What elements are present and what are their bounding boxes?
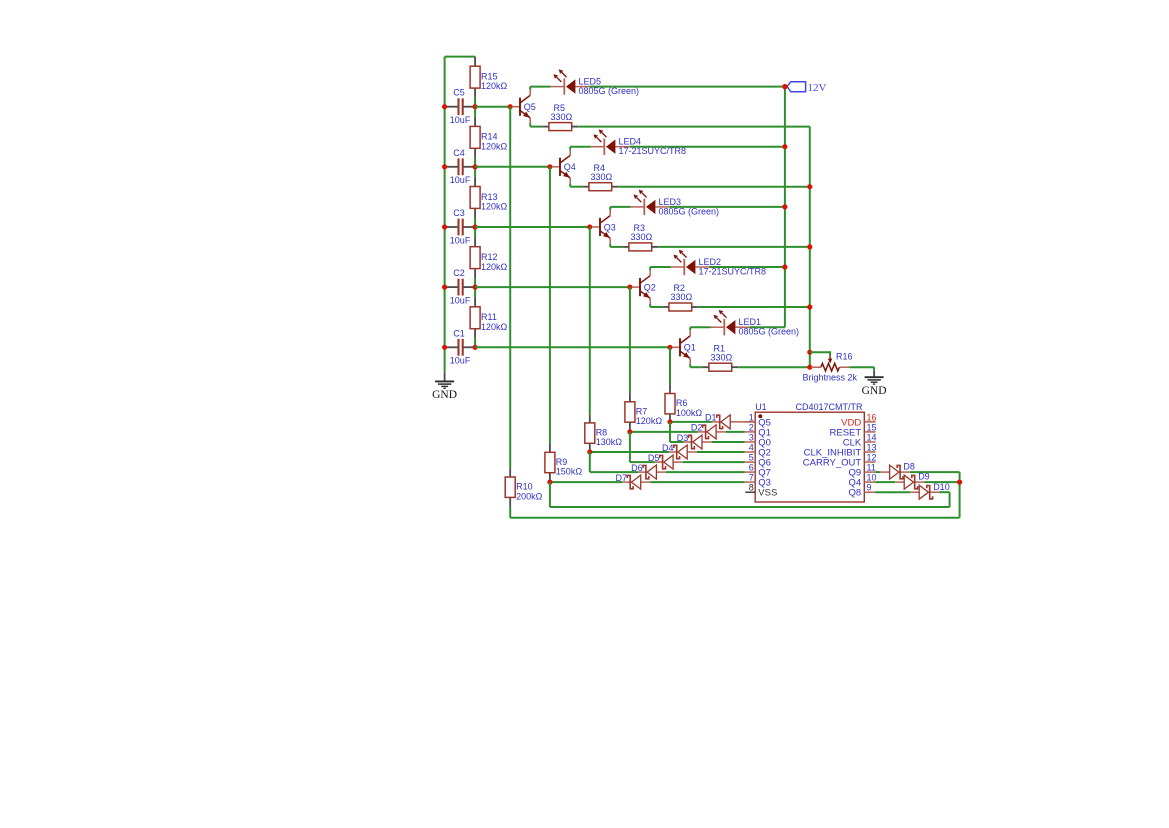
svg-text:120kΩ: 120kΩ xyxy=(481,262,508,272)
diode D6 xyxy=(631,463,666,479)
wire xyxy=(669,206,785,208)
ground xyxy=(432,381,457,401)
wire xyxy=(876,491,911,493)
wire xyxy=(650,266,670,268)
junction xyxy=(782,84,787,89)
svg-text:R12: R12 xyxy=(481,252,498,262)
svg-text:LED5: LED5 xyxy=(579,77,602,87)
resistor R12 xyxy=(470,247,507,272)
resistor R2 xyxy=(669,283,693,311)
wire xyxy=(689,364,691,367)
wire R16 to GND xyxy=(849,366,874,368)
diode D10 xyxy=(910,482,949,499)
svg-text:D1: D1 xyxy=(705,413,717,423)
svg-text:Q3: Q3 xyxy=(604,222,616,232)
wire xyxy=(530,86,550,88)
svg-text:5: 5 xyxy=(749,453,754,463)
resistor R1 xyxy=(709,343,733,371)
junction xyxy=(807,244,812,249)
wire D8/D9 rail xyxy=(959,472,961,518)
svg-text:120kΩ: 120kΩ xyxy=(481,141,508,151)
junction xyxy=(442,285,447,290)
svg-text:12: 12 xyxy=(867,453,877,463)
wire xyxy=(609,207,611,210)
wire xyxy=(549,482,551,507)
resistor R10 xyxy=(505,477,542,501)
svg-text:120kΩ: 120kΩ xyxy=(636,416,663,426)
junction xyxy=(807,184,812,189)
junction xyxy=(587,449,592,454)
wire bottom rail lower xyxy=(510,517,959,519)
transistor Q2 xyxy=(632,270,656,304)
junction xyxy=(473,104,478,109)
capacitor C5 xyxy=(447,88,474,125)
svg-text:Q1: Q1 xyxy=(684,343,696,353)
svg-text:330Ω: 330Ω xyxy=(631,232,653,242)
LED LED1 xyxy=(711,310,800,337)
transistor Q1 xyxy=(672,330,696,364)
svg-text:Q8: Q8 xyxy=(849,488,862,499)
wire xyxy=(629,432,631,462)
svg-text:R13: R13 xyxy=(481,192,498,202)
wire xyxy=(910,471,960,473)
wire xyxy=(474,338,476,347)
wire xyxy=(649,267,651,270)
resistor R4 xyxy=(589,163,613,191)
resistor R3 xyxy=(629,223,653,251)
wire xyxy=(690,326,710,328)
wire xyxy=(570,146,590,148)
wire emitter rail xyxy=(809,127,811,368)
junction xyxy=(473,164,478,169)
wire xyxy=(475,166,552,168)
junction xyxy=(782,144,787,149)
wire xyxy=(474,227,476,237)
svg-text:LED3: LED3 xyxy=(659,197,682,207)
junction xyxy=(667,419,672,424)
svg-text:R10: R10 xyxy=(516,482,533,492)
svg-text:3: 3 xyxy=(749,432,754,442)
wire feedback column xyxy=(669,347,671,385)
svg-text:LED4: LED4 xyxy=(619,137,642,147)
wire xyxy=(712,441,745,443)
resistor R13 xyxy=(470,187,507,212)
svg-text:Q2: Q2 xyxy=(644,282,656,292)
svg-text:10uF: 10uF xyxy=(450,235,471,245)
diode D5 xyxy=(648,453,683,469)
resistor R15 xyxy=(470,66,507,91)
wire xyxy=(529,87,531,90)
resistor R14 xyxy=(470,126,507,151)
svg-text:10: 10 xyxy=(867,473,877,483)
wire xyxy=(669,422,671,442)
junction xyxy=(627,429,632,434)
svg-text:R9: R9 xyxy=(556,457,568,467)
wire xyxy=(709,266,785,268)
wire xyxy=(474,218,476,227)
svg-text:10uF: 10uF xyxy=(450,296,471,306)
wire xyxy=(475,106,512,108)
capacitor C3 xyxy=(447,208,474,245)
wire xyxy=(630,461,655,463)
capacitor C4 xyxy=(447,148,474,185)
svg-text:C4: C4 xyxy=(453,148,465,158)
wire xyxy=(697,451,745,453)
svg-text:GND: GND xyxy=(432,389,457,401)
capacitor C1 xyxy=(447,328,474,365)
wire xyxy=(570,186,582,188)
svg-text:R11: R11 xyxy=(481,312,497,322)
junction xyxy=(442,345,447,350)
svg-text:100kΩ: 100kΩ xyxy=(676,408,703,418)
power flag 12V xyxy=(787,82,826,95)
wire xyxy=(569,184,571,187)
diode D9 xyxy=(895,472,930,490)
svg-text:D6: D6 xyxy=(631,463,643,473)
svg-text:R7: R7 xyxy=(636,406,648,416)
svg-text:10uF: 10uF xyxy=(450,115,471,125)
junction xyxy=(782,84,787,89)
svg-text:C2: C2 xyxy=(453,268,465,278)
svg-text:D8: D8 xyxy=(903,462,915,472)
wire xyxy=(590,471,638,473)
svg-text:D10: D10 xyxy=(933,482,950,492)
junction xyxy=(627,285,632,290)
wire xyxy=(683,461,745,463)
LED LED4 xyxy=(591,129,687,156)
svg-text:D4: D4 xyxy=(662,443,674,453)
wire xyxy=(569,147,571,150)
svg-text:CD4017CMT/TR: CD4017CMT/TR xyxy=(796,402,864,412)
svg-text:GND: GND xyxy=(862,385,887,397)
svg-text:R8: R8 xyxy=(596,427,608,437)
svg-text:150kΩ: 150kΩ xyxy=(556,467,583,477)
svg-text:130kΩ: 130kΩ xyxy=(596,437,623,447)
wire xyxy=(610,246,622,248)
wire xyxy=(475,346,672,348)
svg-text:R16: R16 xyxy=(836,352,853,362)
transistor Q5 xyxy=(512,90,536,124)
svg-text:VSS: VSS xyxy=(758,488,777,499)
transistor Q4 xyxy=(552,150,576,184)
wire xyxy=(658,246,810,248)
wire xyxy=(876,481,896,483)
wire 12V rail xyxy=(784,87,786,328)
diode D7 xyxy=(615,473,650,489)
ground xyxy=(862,377,887,397)
svg-text:120kΩ: 120kΩ xyxy=(481,81,508,91)
diode D1 xyxy=(705,413,755,429)
wire wiper xyxy=(810,352,830,355)
capacitor C2 xyxy=(447,268,474,305)
wire feedback column xyxy=(509,107,511,469)
wire xyxy=(474,98,476,107)
svg-text:200kΩ: 200kΩ xyxy=(516,491,543,501)
wire xyxy=(589,452,591,472)
svg-text:D9: D9 xyxy=(918,472,930,482)
junction xyxy=(667,345,672,350)
wire xyxy=(924,481,959,483)
resistor R5 xyxy=(549,103,573,131)
junction xyxy=(473,224,478,229)
diode D8 xyxy=(881,462,915,480)
svg-text:D3: D3 xyxy=(677,433,689,443)
wire xyxy=(749,326,785,328)
wire left GND rail xyxy=(444,57,446,372)
wire xyxy=(726,431,745,433)
svg-text:9: 9 xyxy=(867,483,872,493)
junction xyxy=(587,224,592,229)
wire xyxy=(589,86,785,88)
svg-text:120kΩ: 120kΩ xyxy=(481,202,508,212)
svg-text:12V: 12V xyxy=(808,82,827,94)
svg-text:R15: R15 xyxy=(481,72,498,82)
svg-text:6: 6 xyxy=(749,463,754,473)
wire feedback column xyxy=(549,167,551,444)
svg-text:R6: R6 xyxy=(676,398,688,408)
svg-text:LED2: LED2 xyxy=(699,257,722,267)
junction xyxy=(957,480,962,485)
junction xyxy=(547,164,552,169)
wire xyxy=(650,306,662,308)
diode D2 xyxy=(691,423,726,439)
wire feedback column xyxy=(629,287,631,393)
junction xyxy=(508,104,513,109)
resistor R7 xyxy=(625,402,662,426)
wire xyxy=(590,451,669,453)
wire xyxy=(609,244,611,247)
svg-text:2: 2 xyxy=(749,422,754,432)
wire xyxy=(618,186,810,188)
LED LED3 xyxy=(631,190,720,217)
junction xyxy=(473,345,478,350)
svg-text:7: 7 xyxy=(749,473,754,483)
wire xyxy=(629,146,785,148)
resistor R8 xyxy=(585,423,622,447)
svg-text:11: 11 xyxy=(867,463,876,473)
junction xyxy=(442,104,447,109)
svg-text:R14: R14 xyxy=(481,132,498,142)
svg-text:14: 14 xyxy=(867,432,877,442)
diode D3 xyxy=(677,433,712,449)
svg-text:D7: D7 xyxy=(615,473,627,483)
resistor R6 xyxy=(665,394,702,418)
svg-text:D2: D2 xyxy=(691,423,703,433)
wire xyxy=(630,431,698,433)
svg-text:LED1: LED1 xyxy=(739,317,762,327)
svg-text:U1: U1 xyxy=(755,402,767,412)
wire xyxy=(610,206,630,208)
wire xyxy=(578,126,810,128)
wire cap chain column xyxy=(474,57,476,67)
wire xyxy=(689,327,691,330)
wire top loop xyxy=(445,56,476,58)
svg-text:C3: C3 xyxy=(453,208,465,218)
junction xyxy=(782,264,787,269)
potentiometer R16 xyxy=(803,352,858,383)
junction xyxy=(473,285,478,290)
junction xyxy=(547,480,552,485)
wire xyxy=(474,167,476,177)
svg-text:15: 15 xyxy=(867,422,877,432)
wire xyxy=(690,366,702,368)
svg-text:4: 4 xyxy=(749,442,754,452)
wire xyxy=(530,126,542,128)
svg-text:330Ω: 330Ω xyxy=(711,352,733,362)
junction xyxy=(807,304,812,309)
svg-text:Q5: Q5 xyxy=(524,102,536,112)
wire xyxy=(670,441,684,443)
svg-text:10uF: 10uF xyxy=(450,175,471,185)
wire xyxy=(475,286,632,288)
diode D4 xyxy=(662,443,697,459)
wire xyxy=(474,158,476,167)
wire D10 return xyxy=(949,492,951,507)
IC U1 CD4017CMT/TR xyxy=(745,402,877,502)
resistor R11 xyxy=(470,307,507,332)
svg-text:16: 16 xyxy=(867,412,877,422)
transistor Q3 xyxy=(592,210,616,244)
wire bottom rail upper xyxy=(550,506,950,508)
svg-text:1: 1 xyxy=(749,412,754,422)
wire xyxy=(650,481,744,483)
wire xyxy=(670,421,712,423)
LED LED2 xyxy=(671,250,767,277)
wire xyxy=(509,507,511,518)
wire xyxy=(550,481,623,483)
wire xyxy=(939,491,949,493)
LED LED5 xyxy=(551,69,640,96)
svg-text:D5: D5 xyxy=(648,453,660,463)
junction xyxy=(807,365,812,370)
wire xyxy=(474,278,476,287)
wire xyxy=(474,107,476,117)
wire xyxy=(738,366,810,368)
wire xyxy=(475,226,591,228)
wire feedback column xyxy=(589,227,591,414)
svg-text:C1: C1 xyxy=(453,328,465,338)
svg-text:330Ω: 330Ω xyxy=(591,172,613,182)
wire xyxy=(666,471,745,473)
resistor R9 xyxy=(545,452,582,476)
wire xyxy=(474,287,476,297)
svg-text:330Ω: 330Ω xyxy=(671,292,693,302)
wire xyxy=(649,304,651,307)
svg-text:330Ω: 330Ω xyxy=(551,112,573,122)
junction xyxy=(807,350,812,355)
wire xyxy=(876,471,881,473)
junction xyxy=(442,224,447,229)
wire xyxy=(698,306,810,308)
svg-text:120kΩ: 120kΩ xyxy=(481,322,508,332)
junction xyxy=(782,204,787,209)
svg-text:10uF: 10uF xyxy=(450,356,471,366)
svg-text:Q4: Q4 xyxy=(564,162,576,172)
svg-text:13: 13 xyxy=(867,442,877,452)
svg-text:C5: C5 xyxy=(453,88,465,98)
svg-text:Brightness 2k: Brightness 2k xyxy=(803,372,858,382)
junction xyxy=(442,164,447,169)
svg-text:8: 8 xyxy=(749,483,754,493)
wire xyxy=(529,124,531,127)
